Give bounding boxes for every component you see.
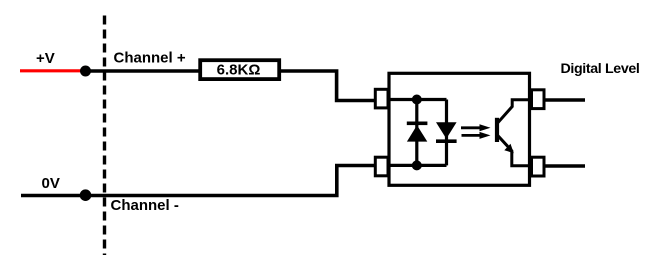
- pin 4 box (collector, right top): [532, 90, 545, 109]
- LED D2 (points down) triangle: [436, 122, 457, 139]
- pin 3 box (emitter, right bottom): [532, 157, 545, 176]
- pin 1 box (anode, left top): [375, 89, 388, 108]
- wire channel+ to resistor: [86, 69, 201, 73]
- resistor 6.8K box: [200, 60, 279, 79]
- node junction dot channel -: [80, 189, 92, 201]
- node dot internal top: [412, 95, 422, 105]
- pin 2 box (cathode, left bottom): [375, 157, 388, 176]
- wire internal top rail: [389, 98, 447, 101]
- op-to-coupler U1 body box: [389, 73, 530, 185]
- svg-text:6.8KΩ: 6.8KΩ: [217, 62, 261, 79]
- wire left branch vertical: [415, 100, 418, 166]
- light emission arrow lower: [462, 132, 491, 139]
- wire channel- to elbow up into optocoupler: [86, 166, 377, 196]
- svg-text:Channel -: Channel -: [111, 197, 179, 214]
- phototransistor Q1 emitter lead: [498, 136, 530, 166]
- wire resistor to elbow: [281, 71, 376, 101]
- wire internal bottom rail: [389, 164, 447, 167]
- light emission arrow upper: [461, 124, 491, 131]
- wire digital output bottom: [544, 164, 585, 168]
- svg-text:Digital Level: Digital Level: [561, 61, 640, 77]
- LED D2 cathode bar: [436, 139, 457, 143]
- wire 0V rail: [21, 194, 86, 198]
- node dot internal bottom: [412, 160, 422, 170]
- svg-text:+V: +V: [36, 50, 55, 67]
- isolation boundary dashed line: [103, 16, 106, 256]
- svg-text:0V: 0V: [42, 175, 60, 192]
- diode D1 reverse-protection (points up) cathode bar: [407, 122, 428, 126]
- wire right branch vertical: [445, 100, 448, 166]
- node junction dot channel +: [80, 66, 91, 77]
- diode D1 triangle: [407, 125, 427, 141]
- wire digital output top: [544, 98, 585, 102]
- wire +V red segment: [20, 69, 86, 72]
- phototransistor Q1 collector lead: [498, 100, 530, 123]
- phototransistor Q1 base bar: [495, 118, 499, 142]
- phototransistor Q1 emitter arrowhead: [504, 144, 514, 153]
- svg-text:Channel +: Channel +: [114, 50, 186, 67]
